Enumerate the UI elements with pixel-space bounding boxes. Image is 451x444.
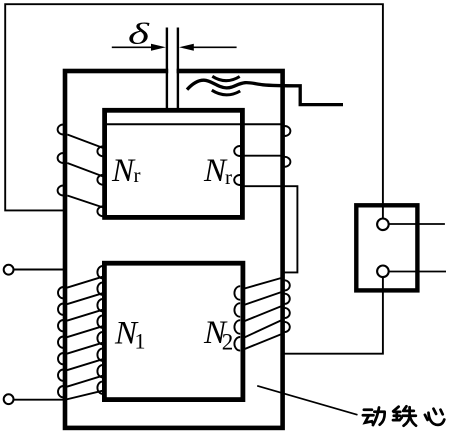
coil Nr left: winding diagonals [67, 135, 103, 208]
coil Nr left: turns on inner window edge [97, 146, 103, 216]
coil Nr right: turns on outer right edge [285, 126, 291, 167]
wire: loop from coil Nr-left bottom, up left side, across top, down to terminal block [5, 4, 383, 218]
dimension arrowhead left (points right) [151, 44, 166, 51]
coil Nr right: turns on inner window edge [234, 146, 240, 185]
armature rod: right guide line of air gap delta [177, 28, 179, 111]
coil N2: winding diagonals [241, 278, 283, 351]
flexible lead: upper short arc [212, 76, 239, 80]
terminal block: lower contact circle [377, 266, 389, 278]
flexible lead: lower short arc [212, 90, 240, 95]
wire: N2 coil bottom lead to terminal block lower circle [283, 277, 383, 354]
core: gap in top edge where armature rod passes [168, 68, 176, 74]
terminal A: open circle [4, 265, 14, 275]
coil N1: turns on inner window edge [97, 266, 103, 394]
wire: terminal B to coil N1 bottom [14, 399, 66, 401]
svg-text:N: N [111, 153, 136, 189]
coil N1: turns on outer left edge [58, 287, 63, 397]
armature rod: left guide line with air gap delta [166, 28, 168, 111]
dimension arrowhead right (points left) [179, 44, 194, 51]
svg-text:r: r [225, 165, 232, 189]
svg-text:2: 2 [222, 330, 234, 355]
label: moving iron core text 'dong' (Chinese) [363, 408, 385, 426]
svg-text:1: 1 [135, 329, 146, 354]
coil N2: turns on inner window edge [234, 286, 240, 350]
dimension line: right segment [193, 46, 237, 48]
label: moving iron core text 'xin' (Chinese) [425, 409, 444, 425]
coil N1: winding diagonals [64, 277, 103, 400]
coil Nr right: middle connecting wire [243, 155, 285, 157]
wire: upper contact lead to the right [389, 223, 445, 225]
wire: armature plate line across top window joining both Nr coils [105, 123, 282, 125]
wire: terminal A to coil N1 top [14, 269, 66, 271]
core: top window of moving iron core (thick rectangle) [105, 110, 243, 217]
core: outer fixed iron core (thick rectangle) [65, 71, 283, 428]
wire: Nr right coil lead going right then down to N2 coil [240, 186, 297, 272]
label: moving iron core text 'tie' (Chinese) [393, 406, 416, 425]
coil Nr left: turns on outer left limb edge [58, 125, 64, 196]
core: bottom window of moving iron core (thick rectangle) [104, 263, 243, 399]
svg-text:δ: δ [128, 18, 150, 51]
flexible lead: main wavy wire continuing right and stepping down [187, 80, 343, 104]
coil N2: turns on outer right edge [285, 280, 290, 332]
svg-text:r: r [134, 163, 141, 187]
wire: lower contact lead to the right [389, 271, 446, 273]
terminal B: open circle [4, 394, 14, 404]
terminal block: upper contact circle [377, 219, 389, 231]
terminal block: rectangle [356, 205, 417, 290]
leader line to moving-core label [257, 386, 357, 415]
dimension line: left segment pointing to gap [112, 46, 152, 48]
